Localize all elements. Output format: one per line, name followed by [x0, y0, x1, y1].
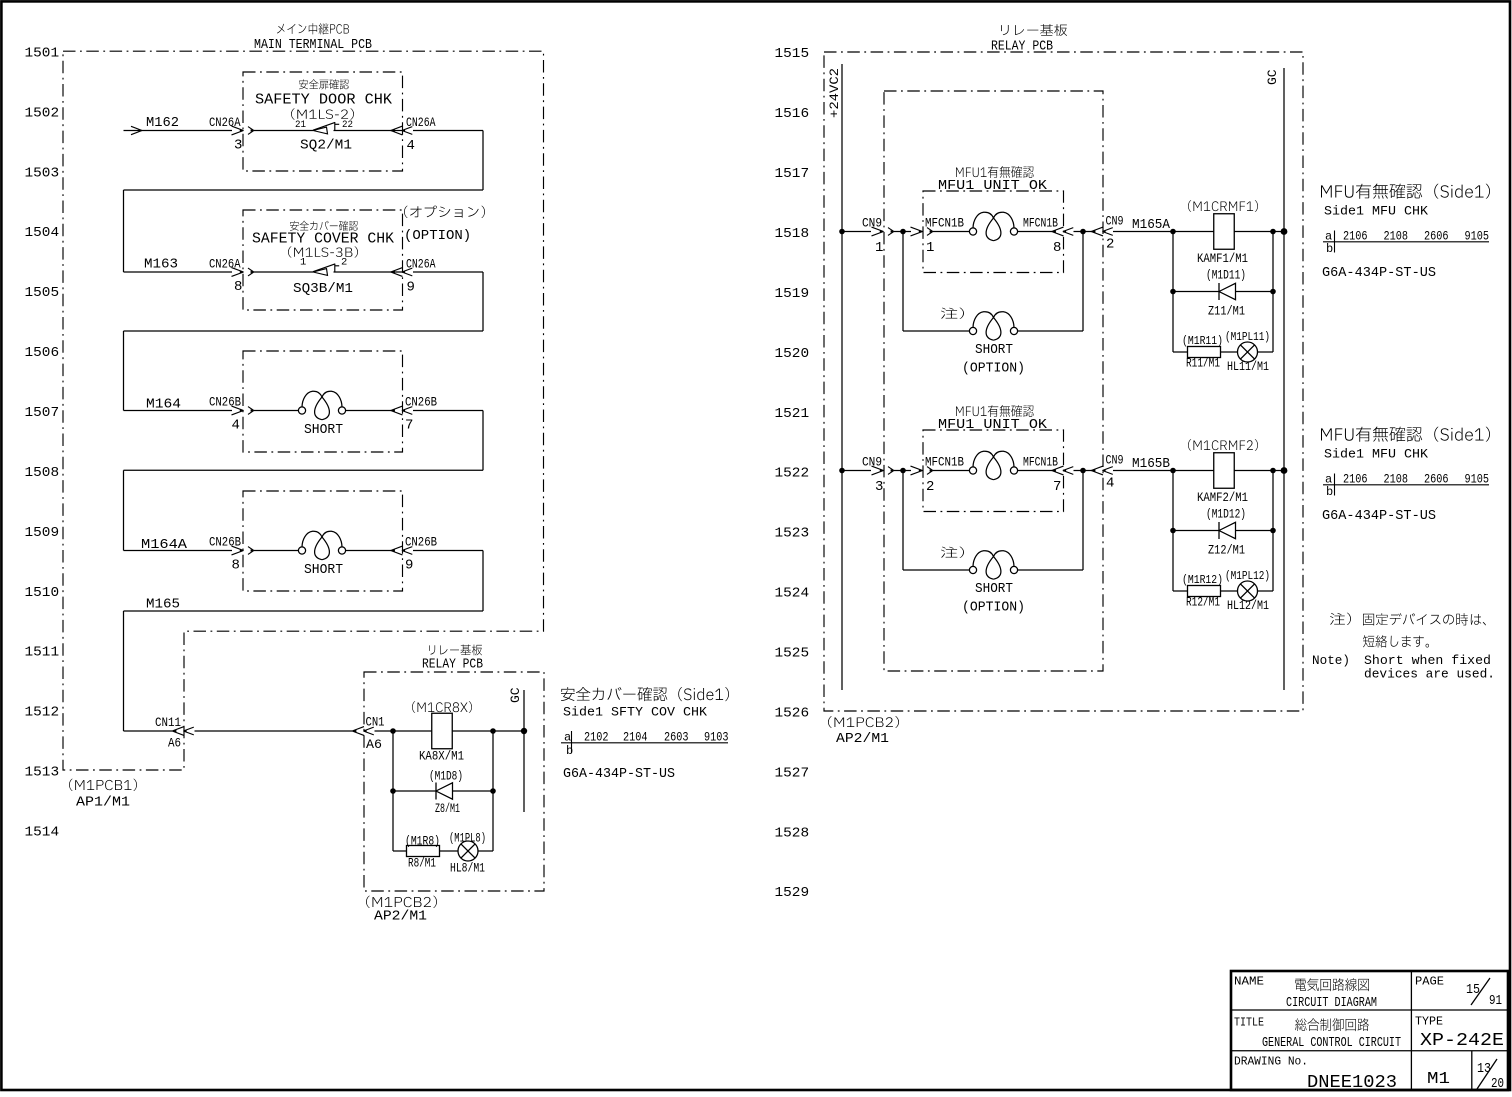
svg-text:NAME: NAME: [1234, 975, 1264, 989]
svg-text:3: 3: [234, 138, 242, 154]
svg-text:AP2/M1: AP2/M1: [374, 910, 427, 925]
svg-text:SQ2/M1: SQ2/M1: [300, 139, 352, 154]
svg-text:MFU1 UNIT OK: MFU1 UNIT OK: [938, 417, 1048, 433]
svg-text:1506: 1506: [25, 345, 60, 361]
svg-text:Side1 MFU CHK: Side1 MFU CHK: [1324, 204, 1428, 219]
svg-text:Z8/M1: Z8/M1: [435, 801, 460, 816]
svg-text:1526: 1526: [775, 705, 810, 721]
svg-text:R11/M1: R11/M1: [1186, 356, 1220, 371]
svg-text:CN9: CN9: [862, 455, 882, 470]
svg-text:(OPTION): (OPTION): [962, 601, 1025, 616]
svg-text:M165: M165: [146, 597, 180, 613]
svg-text:MFCN1B: MFCN1B: [1023, 456, 1058, 470]
svg-text:7: 7: [1053, 479, 1061, 495]
svg-text:1518: 1518: [775, 226, 810, 242]
svg-text:PAGE: PAGE: [1415, 975, 1444, 989]
svg-text:SHORT: SHORT: [304, 422, 343, 438]
svg-text:AP2/M1: AP2/M1: [836, 732, 889, 747]
svg-text:devices are used.: devices are used.: [1364, 667, 1495, 682]
svg-text:MFCN1B: MFCN1B: [925, 456, 964, 470]
svg-text:A6: A6: [168, 736, 181, 751]
svg-text:SAFETY DOOR CHK: SAFETY DOOR CHK: [255, 91, 392, 108]
svg-text:KA8X/M1: KA8X/M1: [419, 749, 464, 764]
svg-text:3: 3: [875, 479, 883, 495]
svg-text:(OPTION): (OPTION): [962, 362, 1025, 377]
svg-text:Z11/M1: Z11/M1: [1208, 304, 1245, 319]
svg-text:1517: 1517: [775, 166, 810, 182]
svg-text:(M1D8): (M1D8): [429, 770, 463, 784]
svg-text:CN26A: CN26A: [406, 256, 436, 271]
svg-text:1523: 1523: [775, 526, 810, 542]
svg-text:1520: 1520: [775, 346, 810, 362]
svg-text:1: 1: [875, 240, 883, 256]
svg-text:G6A-434P-ST-US: G6A-434P-ST-US: [1322, 509, 1436, 524]
svg-text:M165B: M165B: [1132, 456, 1170, 472]
svg-text:1508: 1508: [25, 465, 60, 481]
svg-text:(M1PL11): (M1PL11): [1225, 330, 1270, 344]
svg-text:CN26A: CN26A: [209, 256, 241, 271]
svg-text:AP1/M1: AP1/M1: [76, 796, 130, 811]
svg-text:1511: 1511: [25, 645, 60, 661]
svg-text:GC: GC: [508, 687, 523, 703]
svg-text:RELAY PCB: RELAY PCB: [422, 657, 483, 673]
svg-text:SHORT: SHORT: [975, 581, 1013, 597]
svg-text:CN26B: CN26B: [405, 535, 437, 550]
svg-text:M164: M164: [146, 397, 181, 413]
svg-text:Z12/M1: Z12/M1: [1208, 543, 1245, 558]
svg-text:M165A: M165A: [1132, 217, 1171, 233]
svg-text:HL8/M1: HL8/M1: [450, 861, 485, 876]
svg-text:1504: 1504: [25, 225, 60, 241]
svg-text:MFU1 UNIT OK: MFU1 UNIT OK: [938, 178, 1048, 194]
svg-text:1: 1: [300, 256, 306, 268]
svg-text:1503: 1503: [25, 165, 60, 181]
svg-text:22: 22: [342, 119, 353, 131]
svg-text:1525: 1525: [775, 646, 810, 662]
svg-text:91: 91: [1489, 993, 1502, 1009]
svg-text:M162: M162: [146, 115, 179, 131]
svg-text:G6A-434P-ST-US: G6A-434P-ST-US: [1322, 266, 1436, 281]
svg-text:b: b: [566, 744, 573, 758]
svg-text:8: 8: [232, 558, 240, 574]
svg-text:CN9: CN9: [1106, 214, 1124, 229]
svg-text:R8/M1: R8/M1: [408, 856, 436, 871]
svg-text:1521: 1521: [775, 406, 810, 422]
svg-text:1510: 1510: [25, 585, 60, 601]
svg-text:1516: 1516: [775, 106, 810, 122]
svg-text:21: 21: [295, 119, 306, 131]
svg-text:1528: 1528: [775, 825, 810, 841]
svg-text:CN26B: CN26B: [209, 395, 241, 410]
svg-text:7: 7: [405, 418, 413, 434]
svg-text:1515: 1515: [775, 46, 810, 62]
svg-text:G6A-434P-ST-US: G6A-434P-ST-US: [563, 767, 675, 782]
svg-text:1501: 1501: [25, 45, 60, 61]
svg-text:1507: 1507: [25, 405, 60, 421]
svg-text:Side1 SFTY COV CHK: Side1 SFTY COV CHK: [563, 705, 707, 720]
svg-text:MFCN1B: MFCN1B: [1023, 217, 1058, 231]
svg-text:8: 8: [1053, 240, 1061, 256]
svg-text:Note): Note): [1312, 653, 1350, 668]
svg-text:KAMF1/M1: KAMF1/M1: [1197, 251, 1248, 266]
svg-text:CN1: CN1: [366, 715, 385, 730]
svg-text:4: 4: [1106, 476, 1114, 492]
svg-text:8: 8: [234, 279, 242, 295]
svg-text:13: 13: [1477, 1061, 1491, 1077]
svg-text:9: 9: [407, 280, 415, 296]
svg-text:1522: 1522: [775, 466, 810, 482]
svg-text:M1: M1: [1427, 1070, 1450, 1089]
svg-text:1505: 1505: [25, 285, 60, 301]
svg-text:CN26B: CN26B: [209, 535, 241, 550]
svg-text:1: 1: [926, 240, 934, 256]
svg-text:1509: 1509: [25, 525, 60, 541]
svg-text:CN26A: CN26A: [406, 115, 436, 130]
svg-text:1519: 1519: [775, 286, 810, 302]
svg-text:(M1D11): (M1D11): [1206, 269, 1246, 283]
svg-text:(OPTION): (OPTION): [404, 228, 471, 244]
svg-text:R12/M1: R12/M1: [1186, 595, 1220, 610]
svg-text:CN26A: CN26A: [209, 115, 241, 130]
svg-text:2: 2: [926, 479, 934, 495]
svg-text:4: 4: [232, 418, 240, 434]
svg-text:SAFETY COVER CHK: SAFETY COVER CHK: [252, 230, 394, 247]
svg-text:SHORT: SHORT: [975, 342, 1013, 358]
svg-text:4: 4: [407, 138, 415, 154]
svg-text:M163: M163: [144, 257, 178, 273]
svg-text:M164A: M164A: [141, 537, 188, 553]
svg-text:HL12/M1: HL12/M1: [1227, 598, 1269, 613]
svg-text:CIRCUIT DIAGRAM: CIRCUIT DIAGRAM: [1286, 995, 1377, 1011]
svg-text:KAMF2/M1: KAMF2/M1: [1197, 490, 1248, 505]
svg-text:TYPE: TYPE: [1415, 1015, 1443, 1029]
svg-text:RELAY PCB: RELAY PCB: [991, 39, 1053, 55]
svg-text:MFCN1B: MFCN1B: [925, 217, 964, 231]
svg-text:+24VC2: +24VC2: [827, 68, 842, 118]
svg-text:TITLE: TITLE: [1234, 1016, 1264, 1030]
svg-text:(M1D12): (M1D12): [1206, 508, 1246, 522]
svg-text:1512: 1512: [25, 705, 60, 721]
svg-text:CN9: CN9: [862, 216, 882, 231]
svg-text:DNEE1023: DNEE1023: [1307, 1073, 1397, 1092]
svg-text:(M1R12): (M1R12): [1182, 573, 1223, 587]
svg-text:1514: 1514: [25, 824, 60, 840]
svg-text:GC: GC: [1265, 69, 1280, 85]
svg-text:2: 2: [341, 256, 347, 268]
svg-text:b: b: [1326, 242, 1333, 256]
svg-text:(M1R8): (M1R8): [405, 835, 440, 849]
svg-text:CN11: CN11: [155, 715, 181, 730]
svg-text:SQ3B/M1: SQ3B/M1: [293, 282, 353, 297]
svg-text:20: 20: [1491, 1076, 1504, 1092]
svg-text:(M1R11): (M1R11): [1182, 334, 1223, 348]
svg-text:b: b: [1326, 485, 1333, 499]
svg-text:Side1 MFU CHK: Side1 MFU CHK: [1324, 447, 1428, 462]
svg-text:9: 9: [405, 558, 413, 574]
svg-text:XP-242E: XP-242E: [1420, 1031, 1504, 1051]
svg-text:2: 2: [1106, 237, 1114, 253]
svg-text:MAIN TERMINAL PCB: MAIN TERMINAL PCB: [254, 37, 372, 53]
svg-text:1529: 1529: [775, 885, 810, 901]
svg-text:DRAWING No.: DRAWING No.: [1234, 1055, 1308, 1069]
svg-text:1527: 1527: [775, 765, 810, 781]
svg-text:CN26B: CN26B: [405, 395, 437, 410]
svg-text:1513: 1513: [25, 765, 60, 781]
svg-text:GENERAL CONTROL CIRCUIT: GENERAL CONTROL CIRCUIT: [1262, 1035, 1401, 1051]
svg-text:A6: A6: [366, 737, 382, 752]
svg-text:1502: 1502: [25, 105, 60, 121]
svg-text:(M1PL12): (M1PL12): [1225, 569, 1270, 583]
svg-text:(M1PL8): (M1PL8): [449, 832, 486, 846]
svg-text:SHORT: SHORT: [304, 562, 343, 578]
svg-text:HL11/M1: HL11/M1: [1227, 359, 1269, 374]
svg-text:1524: 1524: [775, 586, 810, 602]
svg-text:CN9: CN9: [1106, 453, 1124, 468]
